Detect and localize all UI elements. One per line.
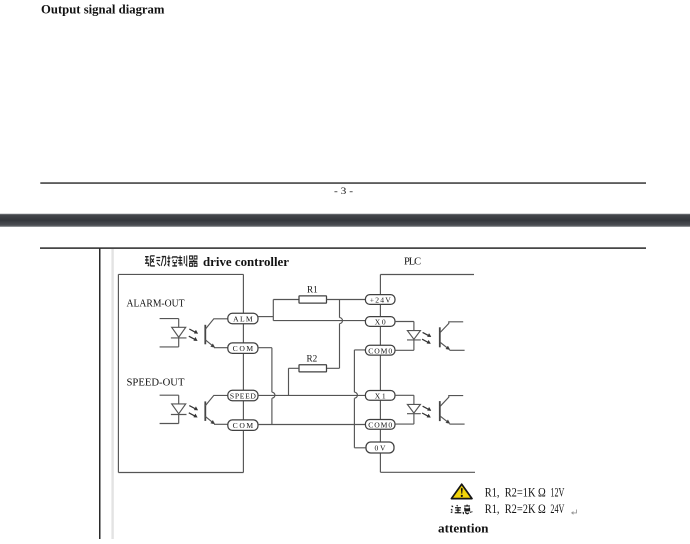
drive terminal bus [242, 274, 244, 472]
wire R2 left [289, 368, 300, 395]
terminal ALM [228, 313, 258, 324]
terminal 0V [366, 442, 394, 453]
drive controller box: top wire [118, 273, 243, 275]
optocoupler U1 LED (alarm) [160, 319, 187, 347]
char 动 [156, 257, 166, 266]
char 控 [167, 255, 177, 266]
resistor R1 [299, 285, 327, 304]
svg-text:24V: 24V [550, 502, 564, 516]
PLC bottom stub [380, 471, 475, 473]
svg-text:- 3 -: - 3 - [334, 186, 353, 196]
svg-text:R1, R2=2K Ω: R1, R2=2K Ω [485, 502, 546, 516]
svg-text:SPEED: SPEED [230, 391, 257, 400]
terminal SPEED [228, 390, 258, 401]
char 器 [189, 256, 197, 266]
optocoupler U3 light arrows [422, 332, 431, 343]
warning triangle icon [451, 484, 472, 498]
wire jog vertical / R1 tap [272, 300, 274, 321]
svg-text:ALARM-OUT: ALARM-OUT [127, 299, 186, 310]
PLC bus [379, 275, 381, 473]
wire COM(speed) row to COM0 [258, 424, 366, 426]
heading: drive controller (Chinese) [145, 255, 197, 266]
terminal X1 [365, 391, 395, 401]
svg-text:12V: 12V [550, 486, 564, 500]
char 驱 [145, 256, 155, 266]
char yi [463, 505, 472, 514]
optocoupler U3 phototransistor (X0) [440, 322, 465, 351]
optocoupler U4 light arrows [422, 406, 431, 417]
svg-text:0V: 0V [375, 443, 387, 452]
svg-text:attention: attention [438, 521, 489, 535]
optocoupler U3 LED (X0 input) [395, 322, 421, 351]
wire ALM row to X0 [273, 320, 365, 322]
wire R1 right to +24V [327, 299, 366, 301]
optocoupler U2 light arrows [189, 406, 198, 418]
optocoupler U1 phototransistor (alarm) [205, 319, 228, 348]
svg-text:drive controller: drive controller [203, 255, 289, 269]
faint scan shadow line [111, 249, 113, 539]
wire ALM to jog [258, 316, 273, 318]
paragraph return mark [572, 510, 577, 515]
optocoupler U2 phototransistor (speed) [205, 395, 228, 424]
optocoupler U4 phototransistor (X1) [440, 396, 465, 425]
terminal +24V [365, 295, 395, 305]
svg-text:+24V: +24V [370, 296, 392, 305]
svg-text:Output signal diagram: Output signal diagram [41, 3, 165, 17]
char 制 [178, 255, 186, 266]
page 1 footer rule [40, 182, 646, 183]
PLC top wire [380, 274, 474, 276]
page separator dark band [0, 214, 690, 227]
svg-text:COM0: COM0 [368, 346, 392, 355]
wire R1/R2 branch vertical with hop [327, 300, 343, 369]
page 2 left margin line [99, 248, 101, 539]
svg-text:COM: COM [233, 421, 254, 430]
wire COM (alarm) down with hop [258, 348, 275, 425]
char zhu [451, 505, 462, 513]
svg-text:R2: R2 [307, 354, 318, 364]
svg-text:COM: COM [233, 344, 254, 353]
page 2 top rule [40, 247, 646, 248]
wire COM0 left vertical with hop [354, 350, 365, 448]
svg-text:COM0: COM0 [368, 421, 392, 430]
svg-text:PLC: PLC [404, 256, 421, 267]
svg-text:ALM: ALM [233, 314, 253, 323]
terminal X0 [365, 317, 395, 327]
wire R1 left [273, 299, 299, 301]
optocoupler U4 LED (X1 input) [395, 395, 421, 424]
drive controller box: left side [117, 274, 119, 472]
optocoupler U1 light arrows [189, 329, 198, 341]
terminal COM (alarm) [228, 343, 258, 354]
wire SPEED row to X1 [258, 394, 365, 396]
svg-text:R1, R2=1K Ω: R1, R2=1K Ω [485, 486, 546, 500]
drive controller box: bottom rail [118, 472, 243, 474]
terminal COM (speed) [228, 420, 258, 431]
terminal COM0 (lower) [365, 420, 395, 430]
svg-text:R1: R1 [307, 285, 318, 295]
note label (Chinese: attention) [451, 505, 472, 514]
svg-text:SPEED-OUT: SPEED-OUT [127, 377, 186, 388]
resistor R2 [299, 354, 327, 372]
terminal COM0 (upper) [365, 345, 395, 355]
optocoupler U2 LED (speed) [160, 395, 187, 423]
